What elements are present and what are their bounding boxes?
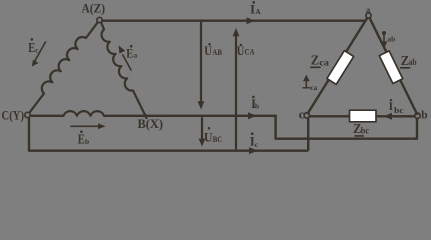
winding (source EMF Ea) on side A-B (101, 22, 146, 118)
label U_AB (204, 43, 222, 58)
current arrow I_b (248, 112, 257, 119)
label U_BC (204, 127, 223, 144)
impedance Z_ab box (379, 51, 402, 84)
svg-text:B(X): B(X) (138, 116, 164, 131)
svg-text:A(Z): A(Z) (82, 0, 106, 15)
label Z_bc (353, 122, 369, 137)
svg-text:Z: Z (311, 54, 320, 69)
node c (304, 113, 309, 118)
load diagonal c to a (308, 18, 368, 114)
svg-text:b: b (421, 109, 427, 121)
current arrow I_c (249, 147, 258, 154)
label Z_ab (401, 54, 417, 69)
svg-text:ca: ca (319, 57, 329, 67)
svg-text:E: E (78, 132, 85, 147)
label I_A (250, 1, 261, 16)
EMF arrow E_c (35, 42, 46, 61)
label I_b (251, 96, 259, 112)
wire A to a (top line) (101, 20, 365, 22)
voltage arrow U_AB (200, 22, 202, 103)
voltage arrow U_CA (235, 35, 237, 149)
svg-text:b: b (255, 102, 259, 111)
wire C to B (middle line, winding gap) (30, 115, 275, 117)
node A (97, 17, 102, 22)
label E_a (126, 45, 137, 61)
svg-text:C(Y): C(Y) (2, 108, 25, 123)
impedance Z_ca box (327, 51, 354, 85)
svg-text:A: A (255, 7, 261, 16)
current arrow I_ca (305, 78, 307, 88)
EMF arrow E_a (123, 55, 131, 70)
svg-text:ab: ab (409, 57, 417, 67)
node b (415, 113, 420, 118)
label I_bc (389, 99, 404, 115)
wire B to b (jog down and right) (276, 115, 417, 139)
node C (25, 112, 30, 117)
label Z_ca (311, 54, 330, 69)
winding (source EMF Ec) on side A-C (29, 22, 98, 113)
svg-text:E: E (28, 40, 35, 55)
svg-text:ca: ca (310, 83, 317, 92)
svg-text:a: a (134, 51, 138, 60)
label U_CA (237, 43, 255, 58)
voltage arrow U_BC (201, 118, 203, 140)
load diagonal a to b (370, 18, 418, 114)
load wire c to b (with impedance Z_bc) (308, 115, 416, 117)
wire C to c (bottom line) (29, 117, 308, 151)
svg-text:U: U (204, 43, 212, 58)
current arrow I_bc (384, 113, 393, 120)
svg-text:E: E (126, 47, 133, 61)
label E_b (78, 130, 89, 146)
svg-text:b: b (85, 137, 89, 146)
svg-text:c: c (299, 107, 305, 121)
impedance Z_bc box (350, 110, 377, 122)
node a (366, 13, 371, 18)
EMF arrow E_b (71, 125, 100, 127)
label E_c (28, 38, 39, 55)
svg-text:BC: BC (213, 135, 223, 144)
current arrow I_A (247, 17, 256, 24)
svg-text:AB: AB (212, 48, 222, 57)
label I_c (250, 132, 259, 149)
winding (source EMF Eb) on wire C-B (64, 111, 105, 116)
svg-text:bc: bc (361, 125, 369, 135)
svg-text:bc: bc (394, 106, 404, 115)
svg-text:ab: ab (387, 34, 395, 43)
current arrow I_ab (382, 31, 386, 35)
svg-text:CA: CA (245, 47, 255, 56)
svg-text:I: I (389, 101, 394, 113)
node B (junction) (144, 114, 147, 117)
